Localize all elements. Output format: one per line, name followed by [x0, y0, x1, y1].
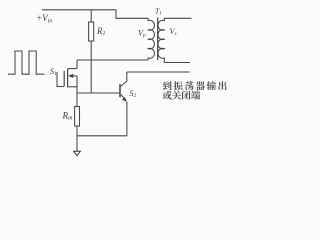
svg-text:Vp: Vp [138, 29, 146, 39]
wire primary bottom horizontal [77, 59, 148, 61]
ground [74, 151, 81, 155]
transistor S1 MOSFET drain stub [68, 68, 77, 70]
resistor Rm [75, 107, 80, 127]
svg-text:S1: S1 [50, 67, 57, 77]
annotation text: to oscillator output or shutdown terminal [163, 81, 227, 100]
transistor S1 MOSFET body arrow [71, 75, 77, 77]
transformer T1 secondary winding Ns [158, 18, 164, 60]
transformer T1 core [157, 18, 159, 61]
transistor S2 emitter [121, 94, 127, 101]
wire S2 base [77, 92, 119, 94]
transistor S1 MOSFET channel bar [67, 69, 69, 87]
wire drain up to primary bottom line [76, 60, 78, 69]
wire rail to primary top [116, 10, 148, 18]
wire +Vin top rail [42, 9, 116, 11]
wire emitter bottom return [77, 135, 127, 137]
resistor R1 [90, 10, 92, 22]
transistor S1 MOSFET gate bar [63, 71, 65, 87]
square wave signal [8, 51, 45, 74]
svg-text:+Vin: +Vin [36, 13, 52, 25]
transistor S2 base bar [119, 84, 121, 97]
svg-text:Rm: Rm [62, 111, 74, 122]
svg-text:R1: R1 [96, 26, 106, 37]
transistor S1 MOSFET source stub [68, 86, 77, 88]
wire secondary bottom output [164, 60, 190, 63]
wire secondary top output [164, 17, 191, 19]
svg-text:S2: S2 [130, 89, 137, 99]
svg-text:Vs: Vs [170, 27, 177, 37]
wire gate lead [57, 72, 64, 87]
wire S2 collector output [127, 71, 190, 73]
transformer T1 primary winding Np [148, 18, 154, 60]
svg-text:T1: T1 [155, 7, 162, 17]
transistor S2 collector [121, 72, 127, 86]
wire source down [76, 76, 78, 107]
